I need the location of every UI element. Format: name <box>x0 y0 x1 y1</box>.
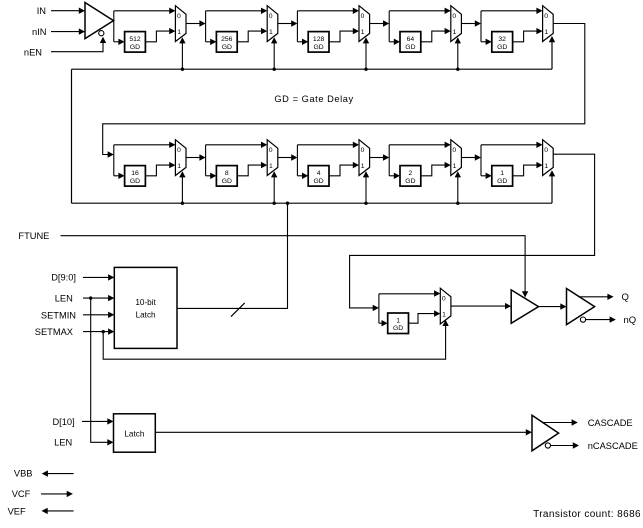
node select tap M9 <box>456 202 459 205</box>
svg-text:D[10]: D[10] <box>52 417 74 427</box>
wire select riser bus to mux M2 <box>271 37 277 69</box>
wire mux M1 output to stage 2 splitter <box>186 20 206 26</box>
wire splitter node stage M2 <box>205 11 207 42</box>
svg-text:0: 0 <box>177 13 181 20</box>
node SETMAX input label <box>35 327 73 337</box>
node select tap M1 <box>181 68 184 71</box>
bus slash mark on latch output <box>231 303 245 317</box>
wire select riser bus to mux M4 <box>455 37 461 69</box>
svg-text:1: 1 <box>500 170 504 177</box>
delay block 256 GD <box>216 32 237 52</box>
svg-text:nCASCADE: nCASCADE <box>588 441 638 451</box>
node SETMAX branch junction <box>102 330 105 333</box>
svg-text:GD: GD <box>222 44 232 51</box>
delay block 512 GD <box>125 32 146 52</box>
wire mux M6 output to next splitter <box>186 154 206 160</box>
wire top rail to mux M5 input 0 <box>481 8 543 14</box>
wire lower branch into delay block 2 GD <box>389 173 400 179</box>
svg-text:0: 0 <box>269 13 273 20</box>
delay block 2 GD <box>400 166 421 187</box>
svg-text:D[9:0]: D[9:0] <box>51 273 76 283</box>
svg-text:16: 16 <box>131 170 139 177</box>
svg-text:512: 512 <box>129 36 141 43</box>
node select tap M4 <box>456 68 459 71</box>
wire 10-bit latch output bus to select buses <box>177 203 288 308</box>
svg-text:1: 1 <box>361 29 365 36</box>
wire delay block 2 GD output to mux M9 input 1 <box>421 162 451 176</box>
wire delay block 128 GD output to mux M3 input 1 <box>329 28 359 42</box>
wire lower branch into delay block 4 GD <box>297 173 308 179</box>
svg-text:VEF: VEF <box>8 506 26 516</box>
svg-text:GD: GD <box>393 325 403 332</box>
wire VEF arrow <box>42 508 74 514</box>
node nCASCADE output label <box>588 441 638 451</box>
wire delay block 4 GD output to mux M8 input 1 <box>329 162 359 176</box>
wire delay block 64 GD output to mux M4 input 1 <box>421 28 451 42</box>
wire lower branch into delay block 256 GD <box>206 39 217 45</box>
wire mux M11 output to buffer U2 <box>451 303 511 309</box>
svg-text:GD: GD <box>497 44 507 51</box>
wire lower branch into delay block 1 GD fine <box>379 320 388 326</box>
wire mux M10 output to fine stage <box>350 154 595 311</box>
svg-text:GD: GD <box>313 44 323 51</box>
node nEN input label <box>24 47 42 57</box>
wire mux M5 output feedback to row 2 <box>103 24 585 158</box>
svg-text:GD: GD <box>405 178 415 185</box>
node select tap M2 <box>273 68 276 71</box>
mux M3 <box>359 6 370 42</box>
svg-text:64: 64 <box>407 36 415 43</box>
wire select bus row 2 <box>72 202 553 204</box>
wire select riser bus to mux M8 <box>363 171 369 203</box>
delay block 1 GD fine <box>388 313 409 334</box>
wire lower branch into delay block 128 GD <box>297 39 308 45</box>
wire LEN branch down to latch U5 <box>91 298 114 445</box>
wire top rail to mux M8 input 0 <box>297 142 359 148</box>
wire splitter node fine stage <box>378 294 380 323</box>
svg-text:1: 1 <box>177 163 181 170</box>
wire D[10] to latch U5 <box>82 418 114 424</box>
svg-text:10-bit: 10-bit <box>135 298 156 307</box>
wire latch U5 output to cascade buffer U6 <box>155 429 532 435</box>
wire IN to input buffer U1 <box>51 8 85 14</box>
wire delay block 16 GD output to mux M6 input 1 <box>145 162 175 176</box>
delay block 128 GD <box>308 32 329 52</box>
node LEN label at latch U5 <box>54 437 72 447</box>
wire mux M7 output to next splitter <box>278 154 298 160</box>
wire splitter node stage M1 <box>113 11 115 42</box>
wire lower branch into delay block 512 GD <box>114 39 125 45</box>
wire lower branch into delay block 64 GD <box>389 39 400 45</box>
wire SETMAX branch to mux M11 select <box>103 320 449 359</box>
svg-text:GD: GD <box>130 44 140 51</box>
svg-text:GD = Gate Delay: GD = Gate Delay <box>274 94 353 104</box>
wire delay block 512 GD output to mux M1 input 1 <box>145 28 175 42</box>
mux M8 <box>359 140 370 176</box>
wire select bus row 1 <box>72 68 553 70</box>
op-amp buffer U6 cascade <box>532 415 559 451</box>
wire select riser bus to mux M6 <box>179 171 185 203</box>
node nIN input label <box>32 27 46 37</box>
node select tap M3 <box>364 68 367 71</box>
wire top rail to mux M6 input 0 <box>114 142 176 148</box>
node LEN input label <box>55 294 73 304</box>
wire top rail to mux M2 input 0 <box>206 8 268 14</box>
wire splitter node stage M10 <box>480 145 482 176</box>
wire nIN to input buffer U1 <box>51 28 85 34</box>
enable bubble on U1 <box>99 31 104 36</box>
text GD = Gate Delay caption <box>274 94 353 104</box>
mux M5 <box>543 6 554 42</box>
svg-text:0: 0 <box>544 147 548 154</box>
mux M4 <box>451 6 462 42</box>
svg-text:1: 1 <box>396 317 400 324</box>
wire select riser bus to mux M5 <box>549 36 555 69</box>
svg-text:0: 0 <box>177 147 181 154</box>
svg-text:1: 1 <box>453 29 457 36</box>
wire top rail to mux M4 input 0 <box>389 8 451 14</box>
wire VBB arrow <box>42 470 74 476</box>
inversion bubble on U3 <box>580 317 585 322</box>
svg-text:0: 0 <box>452 147 456 154</box>
wire nCASCADE output <box>551 442 580 448</box>
svg-text:0: 0 <box>452 13 456 20</box>
wire nQ output <box>586 316 616 322</box>
node SETMIN input label <box>41 310 76 320</box>
wire SETMIN to 10-bit latch <box>83 312 114 318</box>
mux M10 <box>543 140 554 176</box>
svg-text:256: 256 <box>221 36 233 43</box>
wire select riser bus to mux M9 <box>455 171 461 203</box>
wire delay block 32 GD output to mux M5 input 1 <box>513 28 543 42</box>
svg-text:1: 1 <box>269 163 273 170</box>
wire delay block 256 GD output to mux M2 input 1 <box>237 28 267 42</box>
wire select bus row1 to row2 left drop <box>71 69 73 203</box>
wire CASCADE output <box>543 419 578 425</box>
wire splitter node stage M9 <box>388 145 390 176</box>
wire splitter node stage M6 <box>113 145 115 176</box>
wire splitter node stage M8 <box>296 145 298 176</box>
node select tap M6 <box>181 202 184 205</box>
wire select riser bus to mux M1 <box>179 37 185 69</box>
svg-text:nIN: nIN <box>32 27 46 37</box>
svg-text:32: 32 <box>498 36 506 43</box>
node IN input label <box>37 6 46 16</box>
wire VCF arrow <box>41 491 73 497</box>
latch U5 <box>114 414 156 452</box>
svg-text:0: 0 <box>442 296 446 303</box>
wire delay block 8 GD output to mux M7 input 1 <box>237 162 267 176</box>
delay block 8 GD <box>216 166 237 187</box>
text transistor count <box>533 509 641 520</box>
svg-text:1: 1 <box>544 29 548 36</box>
svg-text:FTUNE: FTUNE <box>18 231 49 241</box>
mux M11 <box>440 288 451 324</box>
svg-text:nQ: nQ <box>624 315 637 326</box>
svg-text:1: 1 <box>361 163 365 170</box>
node FTUNE input label <box>18 231 49 241</box>
svg-text:GD: GD <box>222 178 232 185</box>
mux M9 <box>451 140 462 176</box>
svg-text:1: 1 <box>177 29 181 36</box>
node select tap M7 <box>273 202 276 205</box>
wire lower branch into delay block 32 GD <box>481 39 492 45</box>
node nQ output label <box>624 315 637 326</box>
wire top rail to mux M9 input 0 <box>389 142 451 148</box>
wire delay block 1 GD output to mux M11 input 1 <box>409 310 441 323</box>
svg-text:GD: GD <box>313 178 323 185</box>
svg-text:LEN: LEN <box>55 294 73 304</box>
delay block 16 GD <box>125 166 146 187</box>
svg-text:1: 1 <box>453 163 457 170</box>
svg-text:1: 1 <box>544 163 548 170</box>
svg-text:IN: IN <box>37 6 46 16</box>
wire mux M2 output to stage 3 splitter <box>278 20 298 26</box>
wire mux M4 output to stage 5 splitter <box>461 20 481 26</box>
wire buffer U2 to buffer U3 <box>539 303 567 309</box>
svg-text:Latch: Latch <box>124 429 144 438</box>
svg-text:GD: GD <box>405 44 415 51</box>
svg-text:GD: GD <box>497 178 507 185</box>
node latch bus tap on row2 select bus <box>286 202 289 205</box>
node CASCADE output label <box>588 418 633 428</box>
wire LEN to 10-bit latch <box>83 295 114 301</box>
svg-text:8: 8 <box>225 170 229 177</box>
wire lower branch into delay block 1 GD <box>481 173 492 179</box>
svg-text:4: 4 <box>317 170 321 177</box>
wire select riser bus to mux M10 <box>549 170 555 203</box>
wire lower branch into delay block 8 GD <box>206 173 217 179</box>
wire D[9:0] to 10-bit latch <box>83 274 114 280</box>
delay block 64 GD <box>400 32 421 52</box>
svg-text:VCF: VCF <box>12 489 31 499</box>
svg-text:VBB: VBB <box>14 469 33 479</box>
node Q output label <box>622 292 629 303</box>
inversion bubble on U6 <box>545 443 550 448</box>
wire mux M9 output to next splitter <box>461 154 481 160</box>
node VCF reference label <box>12 489 31 499</box>
wire mux M8 output to next splitter <box>370 154 390 160</box>
wire select riser bus to mux M3 <box>363 37 369 69</box>
svg-text:0: 0 <box>269 147 273 154</box>
node LEN branch junction <box>89 296 92 299</box>
delay block 1 GD <box>492 166 513 187</box>
wire mux M3 output to stage 4 splitter <box>370 20 390 26</box>
svg-text:SETMAX: SETMAX <box>35 327 73 337</box>
wire splitter node stage M7 <box>205 145 207 176</box>
mux M7 <box>267 140 278 176</box>
wire top rail to mux M11 input 0 <box>379 290 440 296</box>
mux M6 <box>175 140 186 176</box>
svg-text:1: 1 <box>269 29 273 36</box>
svg-text:1: 1 <box>442 312 446 319</box>
wire delay block 1 GD output to mux M10 input 1 <box>513 162 543 176</box>
node VEF reference label <box>8 506 26 516</box>
wire SETMAX to 10-bit latch <box>83 328 114 334</box>
svg-text:0: 0 <box>361 147 365 154</box>
svg-text:128: 128 <box>313 36 325 43</box>
svg-text:SETMIN: SETMIN <box>41 310 76 320</box>
svg-text:2: 2 <box>409 170 413 177</box>
wire top rail to mux M3 input 0 <box>297 8 359 14</box>
wire top rail to mux M10 input 0 <box>481 142 543 148</box>
delay block 32 GD <box>492 32 513 52</box>
svg-text:Transistor count: 8686: Transistor count: 8686 <box>533 509 641 520</box>
wire FTUNE to output buffer U2 <box>61 236 529 298</box>
wire splitter node stage M5 <box>480 11 482 42</box>
svg-text:nEN: nEN <box>24 47 42 57</box>
mux M2 <box>267 6 278 42</box>
wire Q output <box>579 294 614 300</box>
svg-text:CASCADE: CASCADE <box>588 418 633 428</box>
latch U4 10-bit <box>114 267 177 348</box>
node select tap M8 <box>364 202 367 205</box>
svg-text:0: 0 <box>361 13 365 20</box>
svg-text:Latch: Latch <box>136 311 156 320</box>
delay block 4 GD <box>308 166 329 187</box>
input buffer U1 <box>85 3 114 39</box>
wire lower branch into delay block 16 GD <box>114 173 125 179</box>
svg-text:0: 0 <box>544 13 548 20</box>
op-amp buffer U3 <box>567 289 595 325</box>
node VBB reference label <box>14 469 33 479</box>
mux M1 <box>175 6 186 42</box>
wire splitter node stage M3 <box>296 11 298 42</box>
wire nEN to enable bubble of U1 <box>51 37 106 52</box>
wire top rail to mux M7 input 0 <box>206 142 268 148</box>
node D[10] input label <box>52 417 74 427</box>
wire select riser bus to mux M7 <box>271 171 277 203</box>
wire top rail to mux M1 input 0 <box>114 8 176 14</box>
op-amp buffer U2 <box>511 290 538 323</box>
svg-text:Q: Q <box>622 292 629 303</box>
node D[9:0] input label <box>51 273 76 283</box>
svg-text:GD: GD <box>130 178 140 185</box>
wire splitter node stage M4 <box>388 11 390 42</box>
svg-text:LEN: LEN <box>54 437 72 447</box>
